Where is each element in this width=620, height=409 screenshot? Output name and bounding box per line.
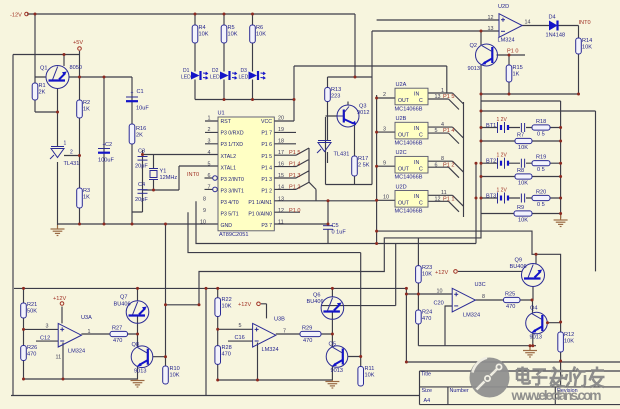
svg-text:R21: R21 — [27, 302, 37, 308]
svg-text:R5: R5 — [228, 25, 235, 31]
svg-text:1: 1 — [208, 115, 211, 121]
svg-text:R10: R10 — [170, 366, 180, 372]
svg-text:Q9: Q9 — [515, 258, 522, 264]
svg-text:C16: C16 — [235, 335, 245, 341]
svg-text:C: C — [419, 201, 423, 207]
svg-text:10K: 10K — [564, 339, 574, 345]
svg-text:R1: R1 — [39, 83, 46, 89]
svg-text:R24: R24 — [422, 310, 432, 316]
svg-text:6: 6 — [435, 162, 438, 168]
svg-text:Q2: Q2 — [470, 43, 477, 49]
svg-text:P1 5: P1 5 — [261, 154, 272, 160]
svg-text:C: C — [419, 98, 423, 104]
svg-text:P1 6: P1 6 — [261, 142, 272, 148]
svg-text:LED: LED — [181, 75, 191, 81]
svg-text:TL431: TL431 — [334, 152, 350, 158]
svg-text:9013: 9013 — [134, 369, 146, 375]
svg-text:10K: 10K — [422, 272, 432, 278]
svg-text:R27: R27 — [112, 326, 122, 332]
svg-text:OUT: OUT — [398, 132, 410, 138]
svg-text:R26: R26 — [27, 345, 37, 351]
svg-text:C: C — [419, 166, 423, 172]
svg-text:5: 5 — [239, 323, 242, 329]
svg-text:U2D: U2D — [396, 184, 407, 190]
svg-text:LED: LED — [210, 75, 220, 81]
svg-text:1 2V: 1 2V — [497, 153, 508, 159]
svg-text:223: 223 — [331, 94, 340, 100]
svg-text:P1 3: P1 3 — [261, 177, 272, 183]
svg-text:R16: R16 — [136, 126, 146, 132]
svg-text:D3: D3 — [241, 68, 248, 74]
svg-text:P3 3/INT1: P3 3/INT1 — [221, 188, 244, 194]
svg-text:TL431: TL431 — [64, 161, 80, 167]
svg-text:R18: R18 — [536, 119, 546, 125]
svg-text:P3 2/INT0: P3 2/INT0 — [221, 177, 244, 183]
svg-text:10K: 10K — [582, 45, 592, 51]
svg-text:19: 19 — [278, 127, 284, 133]
svg-text:U2C: U2C — [396, 150, 407, 156]
svg-text:Q1: Q1 — [40, 66, 47, 72]
svg-text:11: 11 — [278, 219, 284, 225]
svg-text:9013: 9013 — [468, 66, 480, 72]
svg-text:P1 1: P1 1 — [443, 196, 455, 202]
svg-text:0 5: 0 5 — [537, 132, 545, 138]
svg-text:14: 14 — [278, 185, 284, 191]
svg-text:2: 2 — [70, 150, 73, 156]
svg-text:P3 1/TXD: P3 1/TXD — [221, 142, 244, 148]
svg-text:10K: 10K — [228, 32, 238, 38]
svg-text:R8: R8 — [517, 168, 524, 174]
svg-text:14: 14 — [525, 20, 531, 26]
svg-text:BT3: BT3 — [486, 194, 496, 200]
svg-text:P1 0: P1 0 — [507, 49, 519, 55]
svg-text:MC14066B: MC14066B — [395, 106, 423, 112]
svg-text:2: 2 — [208, 127, 211, 133]
svg-text:+12V: +12V — [53, 296, 66, 302]
svg-text:13: 13 — [278, 196, 284, 202]
svg-text:R15: R15 — [513, 65, 523, 71]
svg-text:3: 3 — [208, 139, 211, 145]
svg-text:U1: U1 — [218, 111, 225, 117]
svg-text:XTAL2: XTAL2 — [221, 154, 237, 160]
svg-text:OUT: OUT — [398, 201, 410, 207]
svg-text:1: 1 — [88, 329, 91, 335]
svg-text:U3A: U3A — [81, 315, 92, 321]
svg-text:17: 17 — [278, 150, 284, 156]
svg-text:Q8: Q8 — [132, 342, 139, 348]
svg-text:18: 18 — [278, 139, 284, 145]
svg-text:D4: D4 — [549, 15, 556, 21]
svg-text:P3 7: P3 7 — [261, 223, 272, 229]
svg-text:-12V: -12V — [10, 13, 22, 19]
svg-text:C1: C1 — [137, 89, 144, 95]
svg-text:RST: RST — [221, 119, 232, 125]
svg-text:LM324: LM324 — [262, 347, 279, 353]
svg-text:Q7: Q7 — [120, 295, 127, 301]
svg-text:R6: R6 — [256, 25, 263, 31]
svg-text:10uF: 10uF — [136, 106, 149, 112]
svg-text:8: 8 — [203, 196, 206, 202]
svg-text:R19: R19 — [536, 155, 546, 161]
svg-text:P1 3: P1 3 — [289, 173, 301, 179]
svg-text:10K: 10K — [256, 32, 266, 38]
svg-text:P1 0/AIN0: P1 0/AIN0 — [248, 212, 272, 218]
svg-text:20pF: 20pF — [135, 197, 148, 203]
svg-text:16: 16 — [278, 162, 284, 168]
svg-text:AT89C2051: AT89C2051 — [219, 232, 248, 238]
svg-text:2: 2 — [383, 92, 386, 98]
svg-text:8: 8 — [441, 156, 444, 162]
svg-text:10K: 10K — [222, 304, 232, 310]
svg-text:13: 13 — [435, 94, 441, 100]
svg-text:470: 470 — [113, 338, 122, 344]
svg-text:4: 4 — [441, 122, 444, 128]
svg-text:12: 12 — [488, 15, 494, 21]
svg-text:BU406: BU406 — [510, 264, 527, 270]
svg-text:7: 7 — [283, 329, 286, 335]
svg-text:U2D: U2D — [498, 4, 509, 10]
svg-text:P1 2: P1 2 — [443, 162, 455, 168]
svg-text:20: 20 — [278, 115, 284, 121]
svg-text:12MHz: 12MHz — [160, 175, 178, 181]
svg-text:LED: LED — [239, 75, 249, 81]
svg-text:470: 470 — [27, 352, 36, 358]
svg-text:R17: R17 — [358, 156, 368, 162]
svg-text:1: 1 — [441, 88, 444, 94]
svg-text:Q5: Q5 — [329, 342, 336, 348]
svg-text:BT1: BT1 — [486, 123, 496, 129]
svg-text:10K: 10K — [518, 145, 528, 151]
svg-text:7: 7 — [208, 185, 211, 191]
svg-text:R14: R14 — [582, 38, 592, 44]
svg-text:9013: 9013 — [331, 368, 343, 374]
svg-text:10K: 10K — [199, 32, 209, 38]
svg-text:R11: R11 — [365, 366, 375, 372]
svg-text:LM324: LM324 — [463, 313, 480, 319]
svg-text:470: 470 — [506, 304, 515, 310]
svg-text:BU406: BU406 — [307, 299, 324, 305]
svg-text:R23: R23 — [422, 265, 432, 271]
svg-text:A4: A4 — [424, 398, 431, 404]
svg-text:P3 5/T1: P3 5/T1 — [221, 212, 239, 218]
svg-text:P1 2: P1 2 — [261, 188, 272, 194]
svg-text:R4: R4 — [199, 25, 206, 31]
svg-text:470: 470 — [303, 338, 312, 344]
svg-text:D1: D1 — [183, 68, 190, 74]
svg-text:C3: C3 — [138, 149, 145, 155]
svg-text:11: 11 — [441, 190, 447, 196]
svg-text:+5V: +5V — [73, 40, 83, 46]
svg-text:Q3: Q3 — [359, 104, 366, 110]
svg-text:470: 470 — [422, 316, 431, 322]
svg-text:P3 4/T0: P3 4/T0 — [221, 200, 239, 206]
svg-text:Number: Number — [450, 388, 469, 394]
svg-text:U3C: U3C — [475, 282, 486, 288]
svg-text:R12: R12 — [564, 332, 574, 338]
svg-text:3: 3 — [46, 324, 49, 330]
svg-text:R25: R25 — [505, 292, 515, 298]
svg-text:Title: Title — [421, 372, 431, 378]
svg-text:3: 3 — [383, 126, 386, 132]
svg-text:P1 2: P1 2 — [289, 185, 301, 191]
svg-text:2 5K: 2 5K — [358, 163, 370, 169]
svg-text:1K: 1K — [83, 107, 90, 113]
svg-text:P1 5: P1 5 — [289, 150, 301, 156]
svg-text:R29: R29 — [302, 326, 312, 332]
svg-text:U3B: U3B — [274, 317, 285, 323]
svg-text:VCC: VCC — [261, 119, 272, 125]
svg-text:10: 10 — [437, 289, 443, 295]
svg-text:10K: 10K — [518, 181, 528, 187]
svg-text:0 5: 0 5 — [537, 202, 545, 208]
svg-text:INT0: INT0 — [579, 20, 591, 26]
svg-text:1N4148: 1N4148 — [546, 33, 566, 39]
svg-text:12: 12 — [435, 196, 441, 202]
svg-text:LM324: LM324 — [68, 349, 85, 355]
svg-text:MC14066B: MC14066B — [395, 141, 423, 147]
svg-text:1K: 1K — [513, 72, 520, 78]
svg-text:Size: Size — [422, 388, 433, 394]
svg-text:MC14066B: MC14066B — [395, 175, 423, 181]
svg-text:13: 13 — [488, 26, 494, 32]
svg-text:1 2V: 1 2V — [497, 117, 508, 123]
svg-text:IN: IN — [414, 194, 419, 200]
svg-text:10: 10 — [200, 219, 206, 225]
svg-text:P1 0: P1 0 — [289, 208, 301, 214]
svg-text:U2A: U2A — [396, 82, 407, 88]
svg-text:1K: 1K — [83, 195, 90, 201]
svg-text:P3 0/RXD: P3 0/RXD — [221, 131, 244, 137]
svg-text:U2B: U2B — [396, 116, 407, 122]
svg-text:0 1uF: 0 1uF — [332, 230, 347, 236]
svg-text:R28: R28 — [222, 345, 232, 351]
svg-text:P1 4: P1 4 — [261, 165, 272, 171]
svg-text:www.elecfans.com: www.elecfans.com — [511, 388, 602, 403]
svg-text:100uF: 100uF — [98, 158, 114, 164]
svg-text:R22: R22 — [222, 297, 232, 303]
svg-text:D2: D2 — [212, 68, 219, 74]
svg-text:12: 12 — [278, 208, 284, 214]
svg-text:R13: R13 — [331, 87, 341, 93]
svg-text:P1 4: P1 4 — [443, 128, 455, 134]
svg-text:C2: C2 — [105, 142, 112, 148]
svg-text:C20: C20 — [434, 301, 444, 307]
svg-text:Q6: Q6 — [313, 293, 320, 299]
svg-text:Q4: Q4 — [530, 306, 537, 312]
svg-text:20pF: 20pF — [135, 164, 148, 170]
svg-text:9: 9 — [203, 208, 206, 214]
svg-text:1 2V: 1 2V — [497, 188, 508, 194]
svg-text:2K: 2K — [136, 133, 143, 139]
svg-text:5: 5 — [208, 162, 211, 168]
svg-text:50K: 50K — [27, 309, 37, 315]
svg-text:R20: R20 — [536, 190, 546, 196]
svg-text:R2: R2 — [83, 100, 90, 106]
svg-text:R7: R7 — [517, 133, 524, 139]
svg-text:P1 5: P1 5 — [443, 94, 455, 100]
svg-text:11: 11 — [56, 355, 62, 361]
svg-text:9013: 9013 — [530, 335, 542, 341]
svg-text:15: 15 — [278, 173, 284, 179]
svg-text:+12V: +12V — [435, 270, 448, 276]
svg-text:INT0: INT0 — [187, 172, 199, 178]
svg-text:BU406: BU406 — [114, 302, 131, 308]
svg-text:C5: C5 — [332, 223, 339, 229]
svg-text:BT2: BT2 — [486, 159, 496, 165]
svg-text:1: 1 — [64, 141, 67, 147]
svg-text:8050: 8050 — [70, 65, 82, 71]
svg-text:470: 470 — [222, 352, 231, 358]
svg-text:0 5: 0 5 — [537, 167, 545, 173]
svg-text:OUT: OUT — [398, 98, 410, 104]
svg-text:10K: 10K — [170, 373, 180, 379]
svg-text:9012: 9012 — [357, 110, 369, 116]
svg-text:10K: 10K — [365, 373, 375, 379]
svg-text:IN: IN — [414, 92, 419, 98]
svg-text:P1 7: P1 7 — [261, 131, 272, 137]
svg-text:+12V: +12V — [238, 302, 251, 308]
svg-text:P1 1/AIN1: P1 1/AIN1 — [248, 200, 272, 206]
svg-text:10K: 10K — [518, 218, 528, 224]
svg-text:MC14066B: MC14066B — [395, 209, 423, 215]
svg-text:OUT: OUT — [398, 166, 410, 172]
svg-text:LM324: LM324 — [498, 38, 515, 44]
svg-text:8: 8 — [482, 294, 485, 300]
svg-text:Y1: Y1 — [160, 169, 167, 175]
svg-text:GND: GND — [221, 223, 233, 229]
svg-text:4: 4 — [208, 150, 211, 156]
svg-text:IN: IN — [414, 126, 419, 132]
svg-text:R3: R3 — [83, 188, 90, 194]
svg-text:9: 9 — [383, 160, 386, 166]
svg-text:C: C — [419, 132, 423, 138]
svg-text:2K: 2K — [39, 90, 46, 96]
svg-text:R9: R9 — [517, 205, 524, 211]
svg-text:5: 5 — [435, 128, 438, 134]
svg-text:IN: IN — [414, 160, 419, 166]
svg-text:10: 10 — [383, 195, 389, 201]
svg-text:6: 6 — [208, 173, 211, 179]
svg-text:+: + — [131, 91, 134, 97]
svg-text:C4: C4 — [138, 182, 145, 188]
svg-text:XTAL1: XTAL1 — [221, 165, 237, 171]
svg-text:P1 4: P1 4 — [289, 162, 301, 168]
svg-text:C12: C12 — [40, 336, 50, 342]
